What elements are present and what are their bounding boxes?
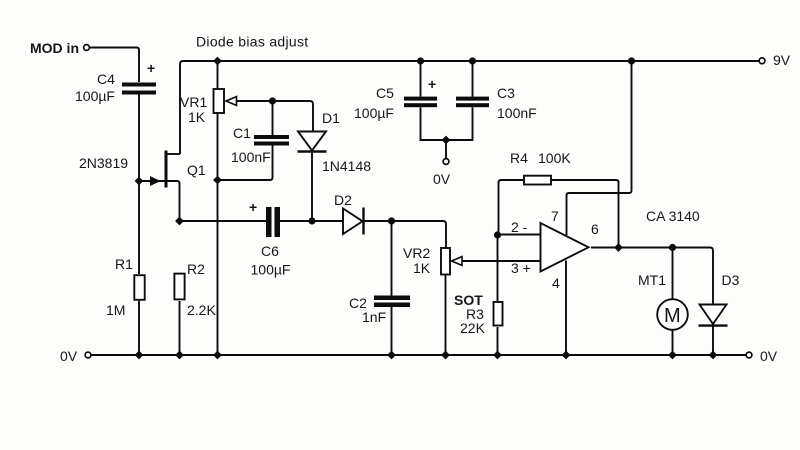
wire 9V rail with Q1 drain riser bbox=[180, 61, 759, 154]
VR1 top lead bbox=[217, 61, 219, 88]
node MOD in terminal bbox=[84, 45, 90, 51]
capacitor C1 bbox=[254, 135, 289, 146]
R1 body bbox=[134, 275, 144, 300]
R4 body bbox=[524, 176, 551, 185]
svg-text:R2: R2 bbox=[187, 261, 205, 277]
VR1 wiper arrow bbox=[226, 97, 237, 106]
svg-text:1N4148: 1N4148 bbox=[322, 158, 371, 174]
svg-text:2 -: 2 - bbox=[511, 219, 528, 235]
capacitor C3 bbox=[456, 97, 489, 108]
capacitor C4 bbox=[122, 83, 156, 95]
wire C1 bottom to VR1 lead bbox=[218, 146, 273, 181]
node rail junction VR2 bbox=[441, 351, 450, 360]
svg-text:0V: 0V bbox=[60, 348, 78, 364]
node D2/C2/VR2 junction bbox=[388, 217, 395, 224]
R3 bottom lead bbox=[497, 327, 499, 355]
node pin2/R3/R4 junction bbox=[494, 231, 501, 238]
channel bar bbox=[165, 151, 168, 188]
wire C6 to D2 bbox=[280, 220, 343, 222]
diode D2 bbox=[343, 208, 364, 235]
svg-text:100µF: 100µF bbox=[75, 88, 115, 104]
node rail junction VR1 bbox=[213, 351, 222, 360]
wire 9V rail to pin 7 bbox=[567, 61, 632, 235]
transistor Q1 2N3819 JFET bbox=[139, 151, 180, 222]
wire C4 bottom to gate junction to R1 bbox=[138, 95, 140, 275]
MT1 top wire bbox=[672, 248, 674, 300]
svg-text:Diode bias adjust: Diode bias adjust bbox=[196, 34, 309, 50]
svg-text:MOD in: MOD in bbox=[30, 40, 79, 56]
svg-text:100µF: 100µF bbox=[354, 105, 394, 121]
node rail junction R2 bbox=[175, 351, 184, 360]
VR1 body bbox=[214, 89, 225, 113]
svg-text:CA 3140: CA 3140 bbox=[646, 208, 700, 224]
wire pin 4 to 0V rail bbox=[565, 261, 567, 356]
svg-text:9V: 9V bbox=[773, 52, 791, 68]
svg-text:2N3819: 2N3819 bbox=[79, 155, 128, 171]
svg-text:1M: 1M bbox=[106, 302, 125, 318]
node D1 cathode junction bbox=[308, 217, 315, 224]
MT1 body circle bbox=[657, 299, 688, 330]
D1 cathode wire bbox=[311, 153, 313, 222]
resistor R2 bbox=[174, 274, 184, 355]
node rail junction R1 bbox=[135, 351, 144, 360]
svg-text:0V: 0V bbox=[760, 348, 778, 364]
svg-text:0V: 0V bbox=[433, 171, 451, 187]
VR2 body bbox=[441, 248, 450, 275]
node C3 rail junction bbox=[469, 57, 476, 64]
svg-text:3 +: 3 + bbox=[511, 260, 531, 276]
svg-text:4: 4 bbox=[552, 275, 560, 291]
svg-text:22K: 22K bbox=[460, 320, 486, 336]
svg-text:C5: C5 bbox=[376, 85, 394, 101]
drain lead bbox=[166, 153, 180, 155]
wire junction down to C1 top bbox=[272, 101, 274, 135]
node VR1 top junction bbox=[213, 57, 222, 66]
svg-text:MT1: MT1 bbox=[638, 272, 666, 288]
node rail junction D3 bbox=[709, 351, 718, 360]
wire C2 bottom to 0V rail bbox=[391, 307, 393, 355]
gate wire bbox=[139, 180, 165, 182]
source lead bbox=[166, 181, 180, 221]
diode D1 1N4148 bbox=[298, 132, 327, 222]
svg-text:D1: D1 bbox=[322, 110, 340, 126]
node C1/VR1 junction bbox=[213, 176, 222, 185]
MT1 bottom wire bbox=[672, 330, 674, 355]
node C5 rail junction bbox=[417, 57, 424, 64]
motor MT1 bbox=[657, 248, 688, 356]
node output/MT1 junction bbox=[669, 244, 676, 251]
VR1 wiper wire bbox=[237, 100, 273, 102]
svg-text:2.2K: 2.2K bbox=[187, 302, 216, 318]
wire 0V bottom rail bbox=[91, 354, 746, 356]
potentiometer VR2 bbox=[441, 248, 540, 355]
node rail junction MT1 bbox=[668, 351, 677, 360]
node rail junction pin4 bbox=[562, 351, 571, 360]
svg-text:Q1: Q1 bbox=[187, 162, 206, 178]
node 0V left terminal bbox=[85, 352, 91, 358]
svg-text:1K: 1K bbox=[188, 109, 206, 125]
wire MOD in to C4 top bbox=[90, 48, 140, 83]
D3 cathode wire bbox=[712, 327, 714, 356]
capacitor C6 bbox=[266, 207, 280, 237]
R3 top lead bbox=[497, 235, 499, 301]
VR2 wiper arrow bbox=[452, 257, 463, 266]
wire D2 cathode to VR2 top bbox=[364, 221, 447, 248]
svg-text:6: 6 bbox=[591, 221, 599, 237]
node 0V stub junction bbox=[442, 136, 451, 145]
wire 0V stub bbox=[445, 140, 447, 159]
svg-text:C6: C6 bbox=[261, 243, 279, 259]
svg-text:100nF: 100nF bbox=[497, 105, 537, 121]
wire C5/C3 bottoms to 0V stub bbox=[421, 107, 473, 140]
node wiper/C1/D1 junction bbox=[269, 97, 276, 104]
svg-text:R1: R1 bbox=[115, 256, 133, 272]
svg-text:+: + bbox=[428, 76, 436, 92]
resistor R4 bbox=[499, 176, 619, 248]
wire junction to D1 anode bbox=[273, 101, 314, 132]
node gate junction bbox=[135, 177, 144, 186]
node rail junction R3 bbox=[493, 351, 502, 360]
VR2 wiper wire to pin 3 bbox=[462, 260, 540, 262]
svg-text:7: 7 bbox=[551, 208, 559, 224]
R2 bottom lead bbox=[179, 301, 181, 355]
resistor R3 bbox=[494, 235, 503, 355]
svg-text:+: + bbox=[249, 199, 257, 215]
R2 body bbox=[174, 274, 184, 300]
potentiometer VR1 bbox=[214, 61, 273, 355]
svg-text:D2: D2 bbox=[334, 192, 352, 208]
svg-text:R4: R4 bbox=[510, 150, 528, 166]
svg-text:100K: 100K bbox=[538, 150, 571, 166]
svg-text:VR1: VR1 bbox=[180, 94, 207, 110]
node 0V mid terminal bbox=[443, 159, 449, 165]
svg-text:+: + bbox=[147, 60, 155, 76]
VR2 bottom lead bbox=[445, 276, 447, 356]
resistor R1 bbox=[134, 275, 144, 355]
diode D3 bbox=[699, 305, 728, 356]
wire source junction to C6 bbox=[180, 220, 267, 222]
R1 bottom lead bbox=[138, 301, 140, 355]
R4 left lead bbox=[499, 180, 524, 235]
svg-text:VR2: VR2 bbox=[403, 245, 430, 261]
svg-text:D3: D3 bbox=[722, 272, 740, 288]
capacitor C5 bbox=[404, 97, 437, 108]
wire C5 top lead bbox=[420, 61, 422, 97]
node 0V right terminal bbox=[746, 352, 752, 358]
node Q1 source junction bbox=[175, 217, 184, 226]
svg-text:M: M bbox=[664, 305, 681, 327]
gate arrow bbox=[151, 177, 160, 185]
svg-text:C4: C4 bbox=[97, 71, 115, 87]
wire op-amp output bbox=[591, 248, 713, 305]
R3 body bbox=[494, 302, 503, 326]
node 9V rail op-amp supply junction bbox=[628, 57, 635, 64]
capacitor C2 bbox=[374, 296, 410, 308]
R4 right lead bbox=[552, 180, 619, 248]
wire junction down to C2 bbox=[391, 221, 393, 296]
svg-text:1nF: 1nF bbox=[362, 309, 386, 325]
svg-text:C1: C1 bbox=[233, 125, 251, 141]
svg-text:1K: 1K bbox=[413, 260, 431, 276]
op-amp U1 CA3140 bbox=[541, 223, 589, 272]
node 9V terminal bbox=[759, 58, 765, 64]
wire C3 top lead bbox=[472, 61, 474, 97]
svg-text:C3: C3 bbox=[497, 85, 515, 101]
node rail junction C2 bbox=[387, 351, 396, 360]
node output/R4 junction bbox=[614, 243, 623, 252]
wire pin 2 input bbox=[498, 234, 541, 236]
VR1 bottom lead bbox=[217, 114, 219, 355]
svg-text:100nF: 100nF bbox=[231, 149, 271, 165]
svg-text:100µF: 100µF bbox=[251, 262, 291, 278]
